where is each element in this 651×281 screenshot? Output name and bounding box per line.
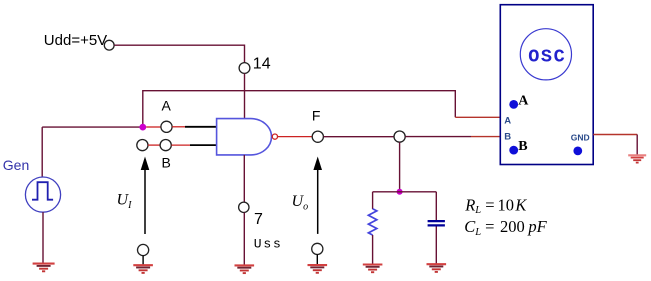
wire Udd to corner xyxy=(114,45,244,62)
svg-text:7: 7 xyxy=(254,211,263,228)
svg-text:B: B xyxy=(518,139,527,154)
arrow UI xyxy=(144,170,146,235)
nand gate U1 body xyxy=(217,119,272,155)
wire capacitor to ground xyxy=(435,227,437,265)
junction load xyxy=(397,189,403,195)
wire pin 7 to ground xyxy=(243,213,245,265)
ground below Gen xyxy=(33,264,55,272)
svg-text:Udd=+5V: Udd=+5V xyxy=(44,32,107,49)
terminal below UO xyxy=(312,243,323,254)
wire top rail xyxy=(143,91,456,127)
capacitor CL plates xyxy=(428,221,445,225)
junction node xyxy=(139,124,146,131)
wire red bubble to F xyxy=(278,136,312,138)
ground below UO xyxy=(308,265,328,273)
wire red stub junction to A terminal xyxy=(146,126,161,128)
svg-text:GND: GND xyxy=(571,133,590,143)
ground below UI xyxy=(133,265,153,273)
svg-text:14: 14 xyxy=(253,55,271,72)
svg-text:OSC: OSC xyxy=(528,47,566,68)
terminal pin 7 xyxy=(239,202,249,212)
wire UO terminal to ground xyxy=(316,255,318,265)
svg-text:B: B xyxy=(162,155,171,171)
svg-text:Gen: Gen xyxy=(3,157,29,173)
probe dot B xyxy=(509,146,518,155)
wire load node down xyxy=(399,142,401,192)
svg-text:A: A xyxy=(504,115,511,126)
terminal F xyxy=(312,131,323,142)
terminal Udd xyxy=(104,40,114,50)
wire down to capacitor xyxy=(435,192,437,220)
ground OSC xyxy=(628,155,646,162)
terminal load node xyxy=(394,131,405,142)
wire red stub A xyxy=(172,126,185,128)
wire rail to OSC channel A xyxy=(455,116,500,118)
wire gate bottom to pin 7 xyxy=(243,155,245,202)
wire UI terminal to ground xyxy=(142,256,144,265)
wire load node to OSC channel B maroon part xyxy=(405,136,471,138)
terminal B left xyxy=(137,140,148,151)
wire gen to junction xyxy=(42,126,143,128)
wire OSC GND down xyxy=(636,135,638,155)
svg-text:RL =10K: RL =10K xyxy=(464,195,527,216)
svg-text:A: A xyxy=(162,98,172,114)
svg-text:Uo: Uo xyxy=(292,193,309,213)
terminal below UI xyxy=(138,244,149,255)
ground below pin 7 xyxy=(235,265,255,273)
wire load branch xyxy=(373,191,437,193)
svg-text:CL =200pF: CL =200pF xyxy=(464,217,547,238)
terminal input A xyxy=(161,121,172,132)
wire resistor to ground xyxy=(372,235,374,264)
svg-text:B: B xyxy=(504,131,511,142)
probe dot GND xyxy=(573,147,582,156)
ground below capacitor xyxy=(427,264,447,272)
arrow UO xyxy=(317,170,319,234)
svg-text:F: F xyxy=(312,107,321,123)
wire red stub B xyxy=(171,144,190,146)
terminal pin 14 xyxy=(239,63,250,74)
terminal B right xyxy=(160,140,171,151)
wire red stub between B terminals xyxy=(148,144,160,146)
nand gate output bubble xyxy=(272,134,277,139)
svg-text:A: A xyxy=(518,94,529,109)
generator circle xyxy=(25,177,60,212)
wire F to load node xyxy=(324,136,394,138)
oscilloscope circle xyxy=(520,29,571,80)
ground below resistor xyxy=(363,265,383,273)
wire black stub B to gate xyxy=(190,144,217,146)
svg-text:UI: UI xyxy=(117,192,133,212)
probe dot A xyxy=(509,100,518,109)
wire Gen to ground xyxy=(42,212,44,263)
svg-text:Uss: Uss xyxy=(254,237,283,252)
wire black stub A to gate xyxy=(185,126,217,128)
wire load node to OSC channel B red part xyxy=(471,136,500,138)
wire down to resistor xyxy=(372,192,374,209)
oscilloscope box xyxy=(500,5,593,165)
resistor RL xyxy=(368,209,376,235)
wire pin14 to gate top xyxy=(244,73,246,118)
wire OSC GND out xyxy=(593,134,637,136)
generator pulse symbol xyxy=(32,182,53,200)
wire junction down to Gen xyxy=(41,127,43,177)
